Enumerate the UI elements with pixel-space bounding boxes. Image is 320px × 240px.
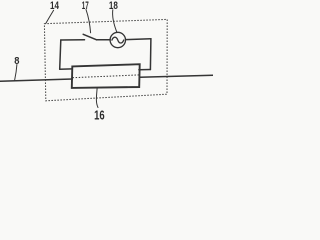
svg-text:17: 17	[82, 0, 89, 12]
leader line for label 17	[86, 10, 91, 33]
svg-text:14: 14	[50, 0, 60, 12]
svg-text:16: 16	[94, 108, 105, 120]
leader line for label 8	[15, 65, 17, 81]
wire line 8 right segment	[140, 75, 214, 77]
leader line for label 14	[46, 10, 54, 23]
wire top left segment	[61, 39, 85, 41]
svg-text:8: 8	[14, 56, 20, 67]
wire left vertical of loop	[60, 40, 61, 69]
wire top right segment	[126, 38, 151, 41]
leader line for label 16	[96, 88, 98, 107]
wire left stub to component 16	[60, 68, 73, 70]
wire right stub to component 16	[139, 69, 151, 71]
svg-text:18: 18	[109, 0, 118, 12]
wire line 8 hidden (dashed) inside component 16	[73, 75, 140, 78]
switch S blade 17	[83, 34, 96, 40]
AC source 18 circle	[110, 32, 125, 47]
wire line 8 left segment	[0, 79, 72, 81]
component 16 rectangle (heater block)	[72, 64, 140, 88]
dashed enclosure box 14	[44, 19, 167, 100]
wire between switch and source	[97, 39, 111, 41]
wire right vertical of loop	[149, 39, 152, 70]
leader line for label 18	[113, 10, 117, 33]
AC source 18 sine wave	[112, 37, 124, 43]
